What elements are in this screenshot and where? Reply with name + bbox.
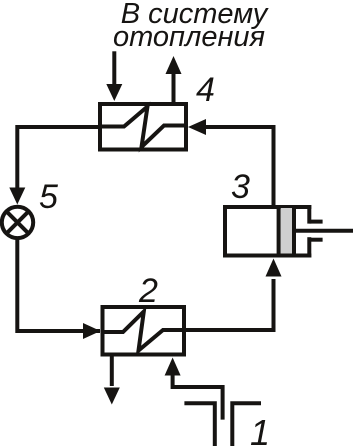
arrow: down into expansion valve	[9, 188, 25, 205]
compressor U3 piston right wall	[292, 207, 296, 254]
compressor U3 piston left wall	[277, 207, 281, 254]
arrow: up into HX2 bottom	[165, 358, 181, 376]
arrow: up out of HX4	[166, 56, 182, 74]
pipe: well casing right	[232, 403, 261, 446]
svg-text:4: 4	[196, 71, 215, 109]
arrow: left into HX4 right side	[188, 119, 206, 135]
wire: HX4 left to expansion valve (top left corner)	[17, 127, 98, 188]
compressor U3 cylinder left edge	[223, 205, 227, 258]
svg-text:2: 2	[138, 272, 158, 310]
heat exchanger HX4 (condenser) body	[100, 104, 186, 150]
svg-text:отопления: отопления	[113, 21, 265, 53]
node: heading text "В систему отопления"	[113, 0, 269, 53]
heat exchanger HX2 zigzag element	[101, 312, 187, 351]
wire: ground water riser to HX2 bottom	[173, 375, 223, 420]
wire: valve down and right to HX2	[17, 238, 100, 331]
arrow: down into HX4 top	[106, 84, 122, 101]
expansion valve V5 cross stroke 2	[7, 212, 28, 233]
wire: HX2 bottom left outlet	[110, 357, 114, 387]
wire: heated water out of HX4 (top right vertical)	[172, 74, 176, 102]
compressor U3 crosshead bottom prong	[309, 238, 322, 242]
arrow: up into compressor bottom	[266, 259, 282, 277]
expansion valve V5 cross stroke 1	[7, 212, 28, 233]
svg-text:3: 3	[231, 168, 250, 206]
wire: HX2 right to compressor bottom	[186, 279, 274, 330]
svg-text:1: 1	[250, 412, 270, 446]
wire: from compressor top to HX4 right	[204, 127, 274, 205]
svg-text:5: 5	[39, 178, 58, 216]
compressor U3 cylinder bottom edge	[223, 254, 311, 258]
compressor U3 piston (grey)	[281, 208, 292, 254]
compressor U3 piston rod	[294, 229, 353, 233]
arrow: down out of HX2	[104, 388, 120, 405]
wire: supply water into HX4 (top left vertical)	[112, 51, 116, 86]
arrow: right into HX2 left side	[83, 323, 101, 339]
compressor U3 cylinder right edge upper part	[307, 205, 311, 224]
compressor U3 cylinder top edge	[223, 205, 311, 209]
expansion valve V5 circle	[2, 207, 33, 238]
heat exchanger HX4 zigzag element	[98, 107, 188, 148]
compressor U3 cylinder right edge lower part	[307, 237, 311, 257]
pipe: well casing left	[184, 403, 214, 446]
heat exchanger HX2 (evaporator) body	[103, 307, 185, 355]
compressor U3 crosshead top prong	[309, 220, 322, 224]
